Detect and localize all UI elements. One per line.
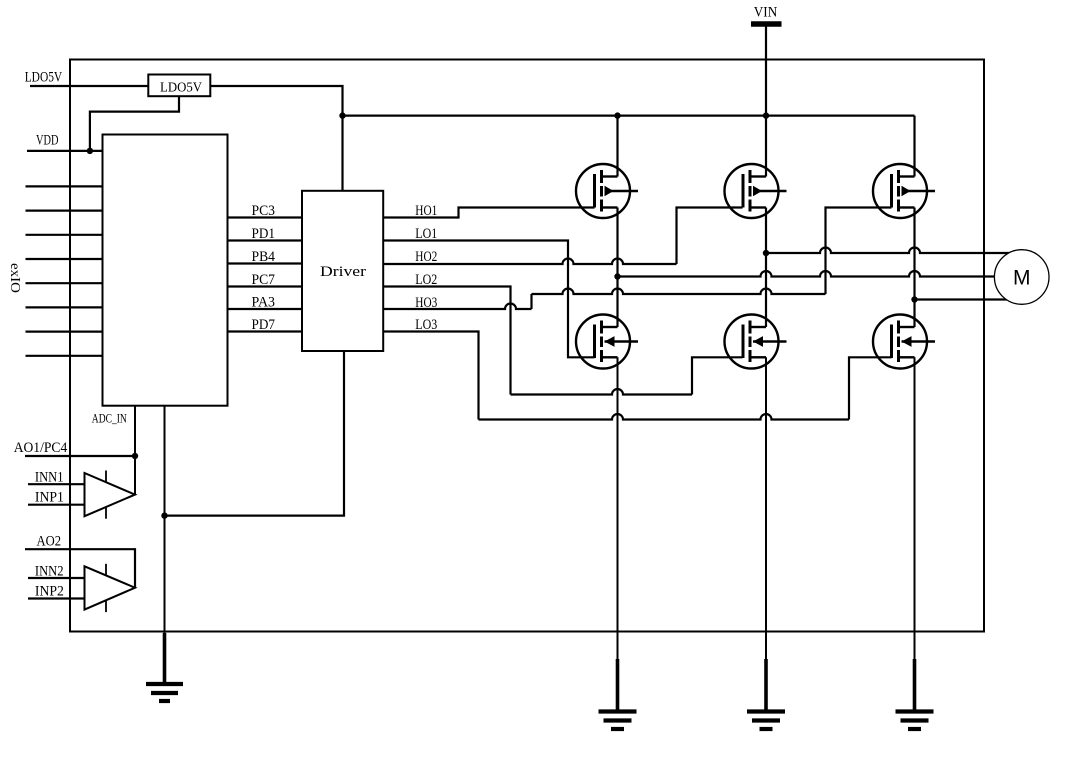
node ground junction [161,512,167,518]
wire LO1 to Q4 gate [383,226,594,357]
ground Q4 source [599,357,637,729]
svg-text:PB4: PB4 [252,249,276,265]
svg-text:PC7: PC7 [252,272,276,288]
wire regulator output to VDD [90,96,179,151]
node rail-Q1 drain junction [614,112,620,118]
wire PB4 MCU to Driver [228,249,303,265]
svg-text:HO2: HO2 [415,249,437,265]
wire Driver ground return [165,351,345,516]
svg-text:PD7: PD7 [252,317,276,333]
svg-text:VIN: VIN [754,5,778,21]
wire LO3 to Q6 gate [383,317,891,420]
node rail-LDO junction [339,112,345,118]
wire PD7 MCU to Driver [228,317,303,333]
wire AO1/PC4 [25,455,135,457]
wire VDD [27,150,103,152]
svg-text:PA3: PA3 [252,295,276,311]
svg-text:Driver: Driver [320,264,366,280]
node phase 2 tap [763,250,769,256]
node phase 3 tap [911,296,917,302]
MCU box [103,135,228,406]
wire INN1 [28,483,85,485]
wire exIO line 3 [26,234,103,236]
wire LDO5V net to regulator [30,85,148,87]
svg-text:INP2: INP2 [35,583,64,599]
wire HO3 to Q3 gate [383,208,891,312]
wire top VIN rail [343,114,915,116]
Driver IC box [302,191,383,351]
svg-text:LDO5V: LDO5V [160,81,202,96]
wire AO1 output to MCU ADC [134,406,136,495]
wire AO2 from comparator output [25,549,135,588]
wire INP1 [28,504,85,506]
wire exIO line 5 [26,282,103,284]
wire PC7 MCU to Driver [228,272,303,288]
wire MCU ground vertical [164,406,166,634]
wire motor phase U [766,248,1009,254]
wire HO2 to Q2 gate [383,208,742,266]
wire INP2 [28,597,85,599]
svg-text:M: M [1013,267,1031,290]
node phase 1 tap [614,273,620,279]
op-amp U2 comparator [85,564,136,612]
motor M [994,250,1049,305]
wire LO2 to Q5 gate [383,272,742,395]
node VDD junction [87,148,93,154]
node rail-VIN junction [763,112,769,118]
svg-text:HO3: HO3 [415,295,437,311]
wire PD1 MCU to Driver [228,226,303,242]
wire rail corner to Q3 drain [913,116,915,177]
wire exIO line 1 [26,185,103,187]
svg-text:AO2: AO2 [37,533,62,549]
transistor Q5 [725,315,787,369]
VIN supply symbol [751,5,782,177]
wire HO1 to Q1 gate [383,203,594,219]
wire PA3 MCU to Driver [228,295,303,311]
border frame [70,60,984,632]
svg-text:LDO5V: LDO5V [25,69,63,85]
wire phase node 2 (Q2 source to Q5 drain) [765,208,767,328]
svg-text:ADC_IN: ADC_IN [92,411,127,426]
svg-text:HO1: HO1 [415,203,437,219]
node AO1 junction [132,453,138,459]
op-amp U1 comparator [85,471,136,519]
transistor Q6 [873,315,935,369]
svg-text:exIO: exIO [7,263,22,293]
wire rail to Q1 drain [616,116,618,177]
svg-text:PD1: PD1 [252,226,276,242]
ground Q5 source [747,357,785,729]
wire PC3 MCU to Driver [228,203,303,219]
transistor Q2 [725,164,787,218]
svg-text:PC3: PC3 [252,203,276,219]
wire motor phase V [618,271,997,277]
transistor Q1 [576,164,638,218]
wire phase node 1 (Q1 source to Q4 drain) [616,208,618,328]
svg-text:AO1/PC4: AO1/PC4 [14,440,68,456]
wire exIO line 4 [26,258,103,260]
wire exIO line 2 [26,210,103,212]
wire exIO line 7 [26,331,103,333]
regulator LDO5V [148,75,210,97]
wire phase node 3 (Q3 source to Q6 drain) [913,208,915,328]
ground Q6 source [896,357,934,729]
wire exIO line 6 [26,306,103,308]
svg-text:LO1: LO1 [415,226,437,242]
wire motor phase W [915,298,1008,300]
transistor Q3 [873,164,935,218]
svg-text:INP1: INP1 [35,490,64,506]
svg-text:LO3: LO3 [415,317,437,333]
svg-text:VDD: VDD [36,132,59,148]
svg-text:LO2: LO2 [415,272,437,288]
wire exIO line 8 [26,355,103,357]
ground MCU [146,620,183,701]
transistor Q4 [576,315,638,369]
wire regulator input from VIN rail, down to Driver VCC [210,86,342,191]
wire INN2 [28,577,85,579]
